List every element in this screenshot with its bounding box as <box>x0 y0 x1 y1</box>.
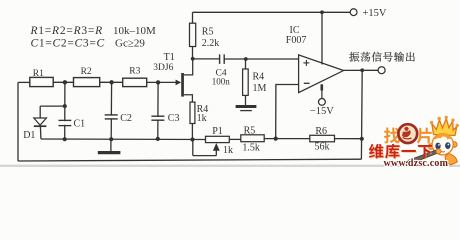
wire: R2 to node B <box>100 81 123 83</box>
ground (mid) <box>110 139 112 151</box>
svg-text:1k: 1k <box>223 145 233 156</box>
ground (R4) <box>236 105 257 108</box>
wire: R3 to gate <box>147 81 178 83</box>
wire: D1 to rail <box>39 126 42 139</box>
resistor R1 <box>30 77 53 86</box>
resistor R3 <box>123 78 147 86</box>
P1 wiper arrow <box>213 143 220 151</box>
node: R5/R6 feedback junction <box>274 137 278 141</box>
label 振荡信号输出 <box>349 52 359 62</box>
watermark logo group <box>369 116 459 169</box>
node: +15V junction <box>320 10 324 14</box>
transistor T1 drain lead <box>184 59 193 75</box>
wire: R1 to node A <box>53 81 73 83</box>
wire: node A down <box>64 82 66 139</box>
resistor R2 <box>74 78 100 87</box>
svg-text:R1=R2=R3=R: R1=R2=R3=R <box>30 25 103 37</box>
capacitor C2 <box>105 114 118 116</box>
wire: top rail to R5 <box>192 12 194 23</box>
svg-text:100n: 100n <box>212 77 231 87</box>
svg-text:−15V: −15V <box>310 106 334 117</box>
svg-text:3DJ6: 3DJ6 <box>153 63 173 73</box>
resistor R4 (1M) <box>243 69 249 95</box>
node: drain node <box>191 57 195 61</box>
wire: branch to D1 <box>40 105 65 107</box>
node: R6 right junction <box>360 137 364 141</box>
svg-text:D1: D1 <box>23 130 35 141</box>
svg-text:1M: 1M <box>253 83 267 94</box>
resistor R5 (2.2k) <box>190 23 196 46</box>
wire: node C down <box>157 82 159 138</box>
resistor R6 <box>310 135 335 142</box>
node C <box>156 80 160 84</box>
svg-text:T1: T1 <box>164 52 175 63</box>
transistor T1 channel bar <box>181 73 184 97</box>
wire: feedback to inverting input <box>276 85 299 139</box>
svg-text:10k–10M: 10k–10M <box>113 25 156 37</box>
node: D1 branch <box>63 104 67 108</box>
wire: C4 to +input <box>224 58 299 60</box>
node B <box>109 80 113 84</box>
resistor R5 (1.5k) <box>241 135 264 142</box>
wire: R5 to drain node <box>192 47 194 59</box>
pin: V- stub <box>320 84 323 90</box>
svg-text:R3: R3 <box>129 66 140 76</box>
wire: drain node to C4 <box>193 58 220 60</box>
bottom scan edge band <box>0 165 460 167</box>
transistor T1 3DJ6 gate arrow <box>176 80 182 86</box>
svg-text:2.2k: 2.2k <box>202 38 220 49</box>
terminal: +15V <box>350 9 357 16</box>
wire: output <box>344 69 379 71</box>
op-amp U1 F007 triangle <box>299 55 344 93</box>
node: C2 rail <box>109 137 113 141</box>
op-amp + pin symbol <box>303 62 309 64</box>
svg-text:C3: C3 <box>168 113 180 124</box>
wire: +15V top rail <box>193 11 351 13</box>
wire: node to R4 <box>245 59 247 69</box>
wire: bottom component rail <box>41 138 206 141</box>
svg-text:Gc≥29: Gc≥29 <box>115 37 145 49</box>
svg-text:+15V: +15V <box>363 8 387 19</box>
diode D1 <box>34 118 47 125</box>
capacitor C1 <box>59 119 72 121</box>
svg-text:C1=C2=C3=C: C1=C2=C3=C <box>31 37 105 49</box>
svg-text:R2: R2 <box>81 67 92 77</box>
wire: bottom feedback line <box>18 159 361 161</box>
wire: left vertical <box>17 82 19 161</box>
svg-text:R4: R4 <box>253 71 265 82</box>
svg-text:56k: 56k <box>315 142 330 153</box>
node A <box>63 80 67 84</box>
op-amp - pin symbol <box>304 82 310 84</box>
resistor R4 (1k) <box>190 102 195 123</box>
svg-text:C2: C2 <box>120 113 132 124</box>
wire: left corner to R1 <box>18 81 30 83</box>
transistor T1 source lead <box>184 95 193 102</box>
svg-text:1k: 1k <box>197 113 207 124</box>
terminal: -15V <box>319 99 326 106</box>
svg-text:R5: R5 <box>244 125 256 136</box>
node: C1 rail <box>63 137 67 141</box>
capacitor C4 <box>219 54 221 64</box>
node: noninverting node <box>244 57 248 61</box>
potentiometer P1 <box>206 136 230 142</box>
wire: V+ supply <box>321 12 323 64</box>
wire: wiper loop <box>193 155 217 157</box>
terminal: signal output <box>378 67 385 74</box>
node: R4/P1 rail <box>190 137 194 141</box>
svg-text:F007: F007 <box>286 35 307 46</box>
wire: node B down <box>110 82 112 139</box>
capacitor C3 <box>151 115 164 117</box>
svg-text:www.dzsc.com: www.dzsc.com <box>384 158 449 167</box>
svg-text:R5: R5 <box>202 26 214 37</box>
svg-text:1.5k: 1.5k <box>242 142 260 153</box>
node: output junction <box>360 68 364 72</box>
wire: output down to bottom rail <box>360 70 363 159</box>
svg-text:R6: R6 <box>315 126 327 137</box>
wire: R4 to rail <box>191 124 193 140</box>
node: C3 rail <box>156 137 160 141</box>
svg-text:R1: R1 <box>33 69 44 79</box>
svg-text:P1: P1 <box>212 126 223 137</box>
svg-text:C1: C1 <box>74 118 86 129</box>
wire: R4 to ground <box>245 95 247 105</box>
